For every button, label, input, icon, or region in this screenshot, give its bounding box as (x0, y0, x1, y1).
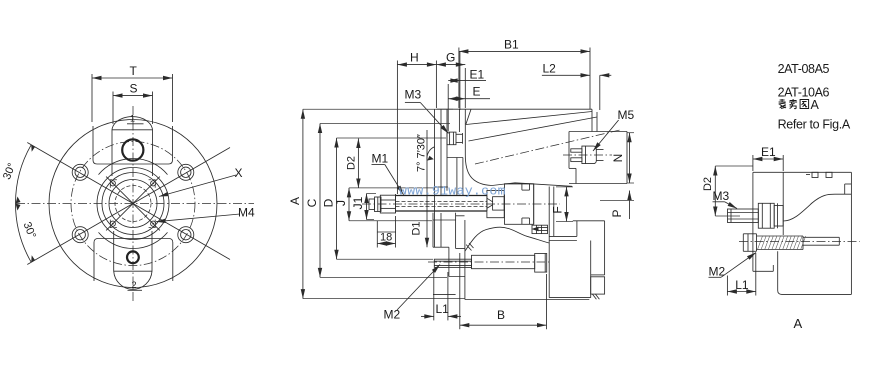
leader M5 (593, 120, 619, 151)
top notches (812, 172, 818, 177)
svg-text:H: H (410, 51, 419, 65)
M1 shaft (396, 195, 487, 197)
cylinder fitting block (532, 225, 548, 233)
svg-text:X: X (235, 166, 243, 180)
dim B1 (459, 50, 590, 52)
rear hub front face (548, 187, 550, 298)
arc arrows (31, 145, 35, 152)
30deg dimension arc lower (15, 204, 31, 263)
svg-text:A: A (794, 316, 803, 331)
svg-text:T: T (130, 64, 138, 78)
M2 threaded hole mouth (743, 233, 756, 235)
M2 centerline (428, 261, 552, 263)
bottom jaw hidden dovetail (110, 220, 117, 228)
wedge slot surface (466, 112, 592, 125)
M3 hex head detail (758, 203, 774, 228)
svg-text:2AT-08A5: 2AT-08A5 (778, 62, 830, 76)
svg-text:1: 1 (130, 114, 135, 124)
dim 18 (377, 243, 395, 245)
rear hub step (591, 277, 605, 294)
radial line 30deg upper-right (133, 148, 230, 204)
M5 centerline (563, 154, 612, 156)
M2 bolt threaded part (434, 259, 471, 267)
inner dashed circle (115, 186, 151, 222)
bottom T-slot (94, 239, 173, 282)
svg-text:L2: L2 (543, 62, 557, 76)
diagonal 45deg lines through M4 holes (106, 177, 160, 231)
svg-text:www.91way.com: www.91way.com (399, 184, 506, 199)
M5 hole lines (596, 149, 603, 151)
piston top line (505, 183, 534, 185)
dim C (319, 124, 321, 278)
svg-text:B1: B1 (504, 38, 519, 52)
svg-text:M3: M3 (713, 189, 730, 203)
piston front face (533, 184, 535, 224)
svg-text:M1: M1 (372, 152, 389, 166)
angle arc (427, 147, 434, 161)
bolt circle (dash-dot) (71, 142, 195, 266)
M4 tapped holes (110, 181, 115, 186)
guide base block (432, 213, 434, 248)
M1 hex head (380, 195, 395, 213)
leader X (159, 175, 236, 197)
M3 washer detail (774, 206, 783, 227)
top edge (753, 171, 852, 173)
svg-text:B: B (497, 308, 505, 322)
svg-text:N: N (611, 154, 625, 163)
boss bottom line (433, 219, 456, 221)
casting hump curve (465, 227, 549, 251)
radial line 30deg lower-left (27, 204, 133, 265)
wedge chamfer (466, 109, 471, 124)
M1 centerline (362, 203, 560, 205)
vertical centerline (132, 106, 134, 301)
wedge centerline (475, 130, 622, 165)
dim H (397, 64, 436, 66)
detail view A (702, 145, 860, 331)
pilot hole (803, 236, 839, 238)
wedge mid slant (469, 117, 598, 141)
dim F (566, 187, 568, 222)
dim J (348, 188, 350, 221)
svg-text:D2: D2 (345, 156, 357, 170)
wedge right end (591, 109, 593, 131)
piston plate (505, 184, 534, 225)
middle view: section (288, 38, 635, 330)
svg-text:F: F (550, 206, 564, 213)
svg-text:S: S (130, 82, 138, 96)
boss top edge (434, 186, 448, 188)
svg-text:30°: 30° (1, 161, 18, 181)
chinese caption 'can kao tu A' drawn as strokes (779, 99, 809, 109)
dim J1 (366, 194, 368, 220)
svg-text:E: E (473, 85, 481, 99)
dim D2 middle (357, 139, 359, 189)
dim B (460, 324, 547, 326)
screw tip cone (487, 198, 493, 208)
bottom jaw bolt hole (bold) (127, 251, 139, 263)
svg-text:L1: L1 (436, 302, 450, 316)
M3 screw detail shaft (728, 209, 759, 223)
radial line 30deg upper-left (27, 143, 133, 204)
boss above screw (447, 157, 463, 159)
svg-text:Refer to Fig.A: Refer to Fig.A (778, 117, 851, 131)
mounting bolt holes (72, 164, 88, 180)
svg-text:P: P (610, 209, 624, 217)
thread relief ticks (592, 294, 596, 299)
dim N (629, 133, 631, 183)
svg-text:D1: D1 (411, 221, 423, 235)
svg-text:7° 7′30″: 7° 7′30″ (416, 134, 428, 172)
svg-text:E1: E1 (470, 68, 485, 82)
M2 hole centerline (739, 241, 860, 243)
right body small step (845, 183, 852, 185)
title text block (778, 62, 851, 132)
dim D2 detail (714, 166, 716, 216)
svg-text:G: G (446, 51, 455, 65)
dim E (448, 98, 465, 100)
left view: flange front (1, 64, 255, 301)
svg-text:18: 18 (380, 231, 392, 243)
M5 screw (571, 149, 582, 152)
svg-text:E1: E1 (761, 145, 776, 159)
svg-text:M3: M3 (405, 88, 422, 102)
svg-text:30°: 30° (21, 220, 38, 240)
M2 bolt head (535, 254, 547, 273)
30deg dimension arc upper (15, 145, 31, 204)
svg-text:2AT-10A6: 2AT-10A6 (778, 86, 830, 100)
back plate left edge (434, 109, 436, 247)
dim D1 (426, 130, 428, 247)
dim E1 detail (753, 158, 783, 160)
dim G (436, 64, 465, 66)
dim L2 (542, 74, 590, 76)
bottom jaw (114, 231, 152, 289)
svg-text:C: C (305, 198, 319, 207)
svg-text:M5: M5 (618, 108, 635, 122)
svg-text:L1: L1 (735, 278, 749, 292)
collar nut (487, 191, 504, 218)
svg-text:J1: J1 (351, 196, 365, 209)
hump curve detail (783, 194, 851, 221)
plate inner verticals (446, 109, 448, 191)
M3 screw (447, 132, 456, 145)
right jaw block (569, 131, 627, 133)
dim L1 detail (727, 291, 755, 293)
bottom edge (778, 251, 852, 294)
dimension T (92, 77, 173, 79)
svg-text:J: J (334, 200, 348, 206)
top jaw (112, 117, 153, 176)
dimension S (113, 95, 153, 97)
body top edge (437, 108, 593, 110)
chamfer ticks (466, 245, 471, 251)
svg-text:M4: M4 (238, 206, 255, 220)
central screw M1 left tip (369, 199, 375, 210)
plate (752, 172, 754, 271)
top T-slot (93, 126, 173, 164)
M2 thread band (757, 235, 804, 237)
leader M3 middle (405, 101, 420, 103)
radial line 30deg lower-right (133, 204, 230, 260)
dim P (629, 191, 631, 201)
jaw seat arcs (99, 158, 168, 174)
svg-text:A: A (811, 98, 820, 112)
cylinder wall line (553, 187, 555, 237)
wedge bottom fillet (465, 155, 572, 186)
svg-text:A: A (288, 197, 302, 205)
svg-text:2: 2 (132, 280, 137, 290)
right body edge (850, 172, 852, 294)
M2 bolt shank (472, 255, 535, 268)
body bottom edge (433, 294, 456, 296)
dim E1 middle (448, 80, 460, 82)
rear hub (573, 220, 605, 222)
dim A (302, 109, 304, 298)
outer circle (49, 120, 217, 288)
plate right edge (464, 109, 466, 155)
top jaw bolt hole (bold) (122, 139, 143, 160)
plate pocket wall (777, 203, 779, 228)
dim D (336, 138, 338, 259)
leader M4 (156, 214, 240, 222)
hub circles (97, 168, 169, 240)
horizontal centerline (16, 203, 254, 205)
thread hatch (758, 236, 763, 250)
top jaw hidden dovetail (110, 180, 117, 188)
